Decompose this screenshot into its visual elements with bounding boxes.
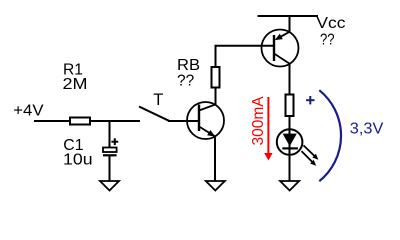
ground under LED — [280, 181, 299, 191]
ground under C1 — [100, 181, 119, 191]
wire +4V rail — [34, 120, 140, 122]
ground under Q1 emitter — [206, 181, 225, 191]
svg-text:3,3V: 3,3V — [350, 120, 384, 137]
svg-text:RB: RB — [177, 57, 200, 74]
voltage annotation brace arc — [319, 90, 341, 181]
wire Vcc rail — [258, 15, 319, 17]
switch T lever — [139, 107, 169, 121]
svg-text:Vcc: Vcc — [316, 15, 345, 32]
wire switch to Q1 base — [168, 120, 199, 122]
capacitor C1 (electrolytic) — [103, 148, 117, 156]
wire Q2 collector to series resistor — [289, 64, 291, 96]
svg-text:??: ?? — [177, 72, 194, 89]
transistor Q1 (NPN) — [187, 102, 224, 139]
polarity plus mark of C1 — [111, 138, 118, 145]
voltage annotation plus mark — [306, 96, 314, 104]
wire Q1 collector to RB — [215, 67, 217, 105]
resistor (LED series) — [286, 95, 294, 117]
resistor RB — [212, 67, 220, 88]
LED D1 — [277, 129, 303, 155]
wire Vcc rail to Q2 emitter — [289, 16, 291, 33]
LED light emission arrows — [302, 145, 319, 165]
svg-text:300mA: 300mA — [250, 96, 267, 146]
svg-text:T: T — [153, 91, 163, 109]
current annotation arrow — [264, 97, 272, 161]
svg-text:10u: 10u — [63, 152, 93, 169]
svg-text:+4V: +4V — [13, 102, 44, 119]
resistor R1 — [70, 118, 90, 125]
wire junction down to C1 — [109, 121, 111, 148]
svg-text:2M: 2M — [63, 76, 88, 93]
wire RB up and over to Q2 base — [216, 46, 275, 67]
wire C1 to ground — [109, 155, 111, 181]
transistor Q2 (PNP) — [262, 30, 299, 67]
svg-text:??: ?? — [320, 31, 335, 48]
wire Q1 emitter to ground — [214, 136, 216, 181]
wire resistor through LED to ground — [289, 116, 291, 181]
